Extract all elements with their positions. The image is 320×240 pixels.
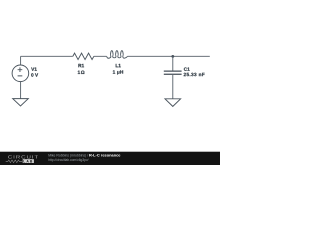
label C1 xyxy=(184,67,190,70)
resistor R1 xyxy=(73,53,94,59)
attribution bar background xyxy=(0,152,220,165)
label C1 value 25.33 nF xyxy=(184,73,205,76)
wire: V1 bottom to ground xyxy=(20,81,22,98)
svg-text:LAB: LAB xyxy=(23,159,33,163)
wire: top net horizontal segments xyxy=(21,55,210,57)
ground (below C1) xyxy=(165,99,181,107)
wire: C1 top vertical xyxy=(172,56,174,70)
label V1 xyxy=(31,68,37,71)
inductor L1 xyxy=(107,51,128,59)
CircuitLab logo resistor zigzag xyxy=(6,160,22,163)
wire: C1 bottom vertical xyxy=(172,75,174,99)
label V1 value 0 V xyxy=(31,73,38,76)
label L1 value 1 uH xyxy=(113,70,123,74)
node junction dot xyxy=(171,55,174,58)
voltage source V1 xyxy=(12,65,29,82)
ground (below V1) xyxy=(13,99,29,106)
wire: V1 top vertical xyxy=(20,56,22,65)
svg-text:http://circuitlab.com/c6g3pv/: http://circuitlab.com/c6g3pv/ xyxy=(48,158,88,162)
svg-text:R-L-C resonance: R-L-C resonance xyxy=(89,153,121,158)
capacitor C1 xyxy=(164,71,182,74)
CircuitLab logo wordmark CIRCUIT xyxy=(8,155,38,158)
label R1 xyxy=(78,64,84,67)
label L1 xyxy=(116,64,121,67)
CircuitLab logo LAB box xyxy=(23,159,34,163)
label R1 value 1 ohm xyxy=(78,71,85,74)
